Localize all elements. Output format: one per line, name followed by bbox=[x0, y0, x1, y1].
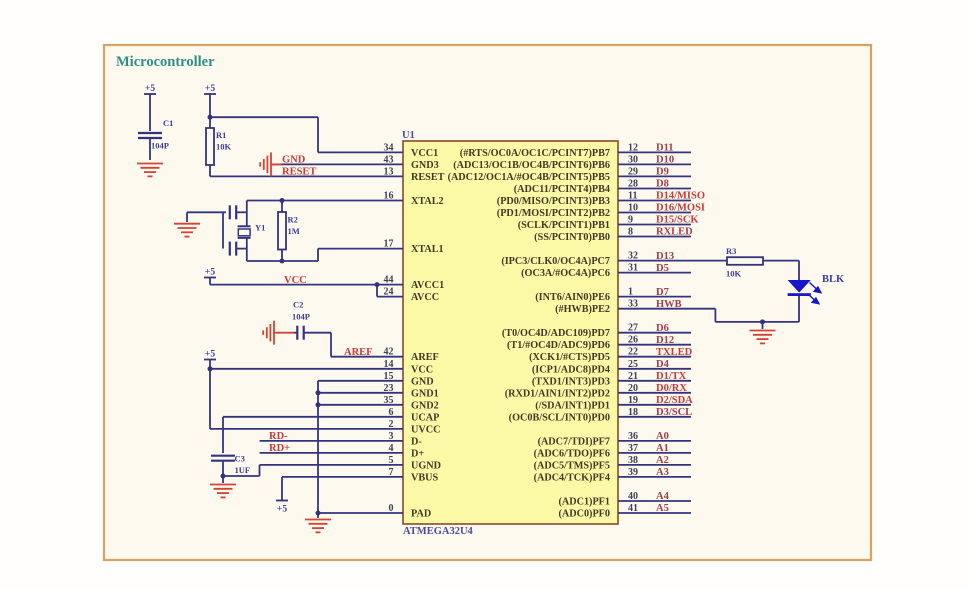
svg-text:RXLED: RXLED bbox=[656, 227, 693, 238]
capacitor C1 bbox=[138, 133, 162, 138]
svg-text:9: 9 bbox=[628, 215, 633, 226]
svg-text:1: 1 bbox=[628, 287, 633, 298]
wire pin 34 VCC1 bbox=[318, 151, 403, 153]
wire pin 11 net D14/MISO bbox=[618, 200, 691, 202]
svg-text:C1: C1 bbox=[163, 118, 173, 128]
svg-text:A1: A1 bbox=[656, 443, 669, 454]
svg-text:44: 44 bbox=[384, 275, 394, 286]
wire R1 junction to corner bbox=[210, 116, 318, 118]
ground stub LED bbox=[762, 322, 764, 329]
wire pin 26 net D12 bbox=[618, 344, 691, 346]
svg-text:A4: A4 bbox=[656, 491, 670, 502]
node LED ground junction bbox=[760, 319, 765, 324]
svg-text:(ADC6/TDO)PF6: (ADC6/TDO)PF6 bbox=[534, 448, 610, 459]
wire cathode to HWB bbox=[715, 321, 799, 323]
svg-text:8: 8 bbox=[628, 227, 633, 238]
resistor R1 bbox=[206, 128, 214, 165]
wire pin 43 GND3 bbox=[272, 163, 403, 165]
svg-text:6: 6 bbox=[389, 407, 394, 418]
wire flag to C2 bbox=[294, 332, 297, 334]
wire pin 13 RESET bbox=[210, 175, 403, 177]
wire UCAP down to C3 bbox=[222, 417, 224, 453]
ground stub PAD bbox=[317, 513, 319, 518]
op IC U1 ATMEGA32U4 body bbox=[403, 141, 618, 524]
ground left of crystal bbox=[174, 224, 200, 237]
svg-text:D9: D9 bbox=[656, 167, 669, 178]
wire pin 29 net D9 bbox=[618, 175, 691, 177]
svg-text:UCAP: UCAP bbox=[411, 412, 439, 423]
wire pin 15 GND bbox=[318, 380, 403, 382]
svg-text:15: 15 bbox=[384, 371, 394, 382]
svg-text:(ADC13/OC1B/OC4B/PCINT6)PB6: (ADC13/OC1B/OC4B/PCINT6)PB6 bbox=[453, 160, 610, 171]
svg-text:(PD1/MOSI/PCINT2)PB2: (PD1/MOSI/PCINT2)PB2 bbox=[497, 208, 610, 219]
svg-text:BLK: BLK bbox=[822, 274, 845, 285]
node GND2 bbox=[316, 402, 321, 407]
svg-text:D15/SCK: D15/SCK bbox=[656, 215, 699, 226]
svg-text:16: 16 bbox=[384, 191, 394, 202]
wire ground node right bbox=[223, 475, 260, 477]
wire pin 27 net D6 bbox=[618, 332, 691, 334]
svg-text:10K: 10K bbox=[726, 269, 742, 279]
wire pin 14 VCC bbox=[210, 368, 403, 370]
svg-text:D2/SDA: D2/SDA bbox=[656, 395, 693, 406]
wire up to UGND bbox=[259, 465, 261, 476]
ground below C3 bbox=[210, 485, 236, 498]
svg-text:20: 20 bbox=[628, 383, 638, 394]
svg-text:31: 31 bbox=[628, 263, 638, 274]
svg-text:D3/SCL: D3/SCL bbox=[656, 407, 692, 418]
svg-text:28: 28 bbox=[628, 179, 638, 190]
wire pin 4 D+ bbox=[260, 452, 403, 454]
svg-text:+5: +5 bbox=[205, 268, 215, 278]
wire pin 3 D- bbox=[260, 440, 403, 442]
wire pin 7 VBUS bbox=[282, 476, 403, 478]
svg-text:43: 43 bbox=[384, 154, 394, 165]
LED D1 (BLK) bbox=[788, 280, 811, 296]
wire pin 1 net D7 bbox=[618, 296, 691, 298]
wire pin 17 XTAL1 bbox=[318, 248, 403, 250]
wire pin 35 GND2 bbox=[318, 404, 403, 406]
svg-text:34: 34 bbox=[384, 142, 394, 153]
LED arrows bbox=[808, 283, 821, 304]
wire +5 to VCC pin 14 bbox=[209, 360, 211, 369]
svg-text:RD-: RD- bbox=[269, 431, 288, 442]
svg-text:(/SDA/INT1)PD1: (/SDA/INT1)PD1 bbox=[535, 400, 610, 411]
wire pin 28 net D8 bbox=[618, 188, 691, 190]
wire pin 41 net A5 bbox=[618, 512, 691, 514]
svg-text:14: 14 bbox=[384, 359, 394, 370]
wire cap to crystal node bbox=[236, 211, 247, 213]
svg-text:UVCC: UVCC bbox=[411, 424, 440, 435]
svg-text:D16/MOSI: D16/MOSI bbox=[656, 203, 705, 214]
svg-text:UGND: UGND bbox=[411, 460, 441, 471]
svg-text:A0: A0 bbox=[656, 431, 669, 442]
svg-text:D-: D- bbox=[411, 436, 422, 447]
ground below LED bbox=[750, 331, 776, 344]
wire AVCC1 to AVCC bbox=[376, 285, 378, 297]
svg-text:(#HWB)PE2: (#HWB)PE2 bbox=[555, 304, 610, 315]
wire pin 2 UVCC bbox=[210, 428, 403, 430]
wire pin 42 AREF bbox=[331, 356, 403, 358]
svg-text:D7: D7 bbox=[656, 287, 669, 298]
svg-text:1M: 1M bbox=[288, 226, 300, 236]
wire pin 25 net D4 bbox=[618, 368, 691, 370]
svg-text:D8: D8 bbox=[656, 179, 669, 190]
svg-text:7: 7 bbox=[389, 467, 394, 478]
svg-text:17: 17 bbox=[384, 239, 394, 250]
wire pin 23 GND1 bbox=[318, 392, 403, 394]
svg-text:(ADC0)PF0: (ADC0)PF0 bbox=[559, 509, 611, 520]
svg-text:HWB: HWB bbox=[656, 299, 682, 310]
svg-text:12: 12 bbox=[628, 142, 638, 153]
wire pin 24 AVCC bbox=[377, 296, 403, 298]
wire pin 6 UCAP bbox=[223, 416, 403, 418]
wire HWB down bbox=[714, 309, 716, 322]
wire crystal bottom bus bbox=[247, 260, 318, 262]
svg-text:21: 21 bbox=[628, 371, 638, 382]
wire pin 12 net D11 bbox=[618, 151, 691, 153]
svg-text:29: 29 bbox=[628, 166, 638, 177]
svg-text:D1/TX: D1/TX bbox=[656, 371, 687, 382]
svg-text:33: 33 bbox=[628, 299, 638, 310]
+5 power symbol above R1 bbox=[204, 93, 216, 95]
ground stub C3 bbox=[222, 476, 224, 483]
svg-text:30: 30 bbox=[628, 154, 638, 165]
svg-text:D5: D5 bbox=[656, 263, 669, 274]
ground flag (rotated) at C2 bbox=[263, 321, 294, 345]
resistor R2 bbox=[278, 212, 286, 250]
svg-text:26: 26 bbox=[628, 335, 638, 346]
capacitor C3 bbox=[211, 456, 235, 461]
wire pin 30 net D10 bbox=[618, 163, 691, 165]
node C3/ground junction bbox=[221, 474, 226, 479]
svg-text:41: 41 bbox=[628, 503, 638, 514]
svg-text:35: 35 bbox=[384, 395, 394, 406]
wire pin 31 net D5 bbox=[618, 272, 691, 274]
+5 power symbol below VBUS (inverted) bbox=[276, 500, 288, 502]
svg-text:(INT6/AIN0)PE6: (INT6/AIN0)PE6 bbox=[535, 292, 610, 303]
svg-text:23: 23 bbox=[384, 383, 394, 394]
wire pin 32 net D13 bbox=[618, 260, 727, 262]
wire pin 8 net RXLED bbox=[618, 236, 691, 238]
svg-text:GND: GND bbox=[282, 155, 306, 166]
svg-text:AREF: AREF bbox=[411, 352, 439, 363]
ground flag (rotated) on GND3 net bbox=[260, 152, 281, 176]
wire +5 to AVCC1 net bbox=[209, 278, 211, 285]
wire XTAL2 node down to crystal bbox=[246, 201, 248, 226]
svg-text:+5: +5 bbox=[205, 84, 215, 94]
svg-text:(OC0B/SCL/INT0)PD0: (OC0B/SCL/INT0)PD0 bbox=[509, 412, 610, 423]
svg-text:0: 0 bbox=[389, 503, 394, 514]
svg-text:D0/RX: D0/RX bbox=[656, 383, 687, 394]
svg-text:AVCC1: AVCC1 bbox=[411, 280, 444, 291]
svg-text:VCC: VCC bbox=[284, 275, 307, 286]
wire pin 0 PAD bbox=[318, 512, 403, 514]
svg-text:37: 37 bbox=[628, 443, 638, 454]
wire up to XTAL1 bbox=[317, 249, 319, 261]
svg-text:104P: 104P bbox=[292, 312, 310, 322]
svg-text:10K: 10K bbox=[216, 142, 232, 152]
svg-text:22: 22 bbox=[628, 347, 638, 358]
svg-text:(SS/PCINT0)PB0: (SS/PCINT0)PB0 bbox=[534, 232, 610, 243]
wire pin 22 net TXLED bbox=[618, 356, 691, 358]
svg-text:C3: C3 bbox=[235, 454, 245, 464]
svg-text:11: 11 bbox=[628, 191, 637, 202]
svg-text:C2: C2 bbox=[293, 300, 303, 310]
node AVCC branch bbox=[375, 282, 380, 287]
node VCC rail bbox=[208, 366, 213, 371]
svg-text:(PD0/MISO/PCINT3)PB3: (PD0/MISO/PCINT3)PB3 bbox=[497, 196, 610, 207]
wire LED cathode down bbox=[798, 296, 800, 322]
svg-text:1UF: 1UF bbox=[235, 465, 251, 475]
svg-text:(OC3A/#OC4A)PC6: (OC3A/#OC4A)PC6 bbox=[521, 268, 610, 279]
svg-text:(RXD1/AIN1/INT2)PD2: (RXD1/AIN1/INT2)PD2 bbox=[505, 388, 610, 399]
node XTAL2/R2 top bbox=[280, 198, 285, 203]
wire +5 to C1 bbox=[149, 94, 151, 131]
wire corner down to VCC1 bbox=[317, 117, 319, 152]
svg-text:(XCK1/#CTS)PD5: (XCK1/#CTS)PD5 bbox=[529, 352, 610, 363]
wire pin 44 AVCC1 bbox=[210, 284, 403, 286]
wire R1 bottom to RESET net bbox=[209, 165, 211, 176]
svg-text:D6: D6 bbox=[656, 323, 669, 334]
svg-text:D12: D12 bbox=[656, 335, 674, 346]
svg-text:D11: D11 bbox=[656, 143, 674, 154]
wire rail down to UVCC bbox=[209, 369, 211, 429]
svg-text:RD+: RD+ bbox=[269, 443, 290, 454]
svg-text:GND3: GND3 bbox=[411, 160, 439, 171]
wire ground to cap C4 bbox=[187, 211, 226, 213]
svg-text:(ADC7/TDI)PF7: (ADC7/TDI)PF7 bbox=[538, 436, 610, 447]
capacitor (XTAL1 load) bbox=[230, 242, 236, 256]
svg-text:18: 18 bbox=[628, 407, 638, 418]
svg-text:(ADC11/PCINT4)PB4: (ADC11/PCINT4)PB4 bbox=[514, 184, 610, 195]
+5 power symbol above C1 bbox=[144, 93, 156, 95]
svg-text:VCC1: VCC1 bbox=[411, 148, 438, 159]
svg-text:32: 32 bbox=[628, 251, 638, 262]
svg-text:D13: D13 bbox=[656, 251, 674, 262]
svg-text:(#RTS/OC0A/OC1C/PCINT7)PB7: (#RTS/OC0A/OC1C/PCINT7)PB7 bbox=[460, 148, 610, 159]
wire C3 to ground node bbox=[222, 461, 224, 476]
svg-text:ATMEGA32U4: ATMEGA32U4 bbox=[403, 526, 474, 537]
svg-text:Y1: Y1 bbox=[255, 223, 265, 233]
svg-text:A5: A5 bbox=[656, 503, 669, 514]
svg-text:36: 36 bbox=[628, 431, 638, 442]
wire pin 18 net D3/SCL bbox=[618, 416, 691, 418]
svg-text:RESET: RESET bbox=[411, 172, 445, 183]
svg-text:(TXD1/INT3)PD3: (TXD1/INT3)PD3 bbox=[532, 376, 610, 387]
svg-text:4: 4 bbox=[389, 443, 394, 454]
ground below C1 bbox=[137, 164, 163, 177]
node R1 top junction bbox=[208, 115, 213, 120]
wire pin 20 net D0/RX bbox=[618, 392, 691, 394]
svg-text:24: 24 bbox=[384, 287, 394, 298]
+5 power symbol near AREF bbox=[204, 359, 216, 361]
node GND1 bbox=[316, 390, 321, 395]
svg-text:XTAL2: XTAL2 bbox=[411, 196, 444, 207]
svg-text:(T0/OC4D/ADC109)PD7: (T0/OC4D/ADC109)PD7 bbox=[502, 328, 610, 339]
wire C1 to ground bbox=[149, 138, 151, 160]
wire cap to crystal bottom bbox=[236, 248, 247, 250]
svg-text:Microcontroller: Microcontroller bbox=[116, 54, 215, 70]
capacitor (XTAL2 load) bbox=[230, 205, 236, 219]
wire corner down to AREF bbox=[330, 333, 332, 357]
svg-text:XTAL1: XTAL1 bbox=[411, 244, 444, 255]
svg-text:(SCLK/PCINT1)PB1: (SCLK/PCINT1)PB1 bbox=[518, 220, 610, 231]
svg-text:(ICP1/ADC8)PD4: (ICP1/ADC8)PD4 bbox=[532, 364, 610, 375]
svg-text:GND1: GND1 bbox=[411, 388, 439, 399]
wire C2 to corner bbox=[304, 332, 331, 334]
svg-text:(T1/#OC4D/ADC9)PD6: (T1/#OC4D/ADC9)PD6 bbox=[507, 340, 610, 351]
svg-text:(ADC4/TCK)PF4: (ADC4/TCK)PF4 bbox=[534, 472, 610, 483]
svg-text:(ADC12/OC1A/#OC4B/PCINT5)PB5: (ADC12/OC1A/#OC4B/PCINT5)PB5 bbox=[448, 172, 610, 183]
wire VBUS down to +5 bbox=[281, 477, 283, 500]
resistor R3 bbox=[727, 257, 763, 265]
svg-text:25: 25 bbox=[628, 359, 638, 370]
wire R2 bottom bbox=[281, 250, 283, 262]
node PAD/ground bbox=[316, 511, 321, 516]
svg-text:D14/MISO: D14/MISO bbox=[656, 191, 705, 202]
svg-text:13: 13 bbox=[384, 166, 394, 177]
svg-text:TXLED: TXLED bbox=[656, 347, 693, 358]
svg-text:(IPC3/CLK0/OC4A)PC7: (IPC3/CLK0/OC4A)PC7 bbox=[501, 256, 610, 267]
wire pin 33 net HWB bbox=[618, 308, 715, 310]
wire down to LED anode bbox=[798, 261, 800, 280]
wire R3 to LED corner bbox=[763, 260, 799, 262]
wire pin 5 UGND bbox=[260, 464, 404, 466]
svg-text:3: 3 bbox=[389, 431, 394, 442]
wire pin 10 net D16/MOSI bbox=[618, 212, 691, 214]
svg-text:R3: R3 bbox=[726, 246, 736, 256]
wire +5 to R1 top bbox=[209, 94, 211, 128]
schematic sheet border bbox=[104, 45, 871, 560]
svg-text:A2: A2 bbox=[656, 455, 669, 466]
svg-text:42: 42 bbox=[384, 347, 394, 358]
+5 power symbol VCC bbox=[204, 277, 216, 279]
svg-text:5: 5 bbox=[389, 455, 394, 466]
svg-text:104P: 104P bbox=[151, 141, 169, 151]
svg-text:10: 10 bbox=[628, 203, 638, 214]
node XTAL1/R2 bottom bbox=[280, 259, 285, 264]
svg-text:VBUS: VBUS bbox=[411, 472, 439, 483]
capacitor C2 bbox=[297, 326, 303, 340]
ground stub bbox=[186, 212, 188, 222]
wire R2 top bbox=[281, 201, 283, 213]
svg-text:R1: R1 bbox=[216, 130, 226, 140]
svg-text:38: 38 bbox=[628, 455, 638, 466]
wire pin 37 net A1 bbox=[618, 452, 691, 454]
svg-text:+5: +5 bbox=[205, 350, 215, 360]
svg-text:27: 27 bbox=[628, 323, 638, 334]
svg-text:2: 2 bbox=[389, 419, 394, 430]
wire ground bus vertical bbox=[317, 381, 319, 513]
wire pin 38 net A2 bbox=[618, 464, 691, 466]
wire pin 36 net A0 bbox=[618, 440, 691, 442]
svg-text:+5: +5 bbox=[277, 505, 287, 515]
wire pin 16 XTAL2 bbox=[247, 200, 403, 202]
svg-text:D10: D10 bbox=[656, 155, 674, 166]
svg-text:D4: D4 bbox=[656, 359, 670, 370]
svg-text:(ADC1)PF1: (ADC1)PF1 bbox=[559, 497, 611, 508]
svg-text:AVCC: AVCC bbox=[411, 292, 439, 303]
wire pin 40 net A4 bbox=[618, 500, 691, 502]
svg-text:GND: GND bbox=[411, 376, 434, 387]
wire crystal bottom down bbox=[246, 238, 248, 261]
svg-text:39: 39 bbox=[628, 467, 638, 478]
svg-text:PAD: PAD bbox=[411, 509, 431, 520]
svg-text:A3: A3 bbox=[656, 467, 669, 478]
wire pin 9 net D15/SCK bbox=[618, 224, 691, 226]
wire left cap bus bbox=[222, 212, 224, 248]
wire pin 39 net A3 bbox=[618, 476, 691, 478]
svg-text:+5: +5 bbox=[145, 84, 155, 94]
svg-text:AREF: AREF bbox=[344, 347, 373, 358]
svg-text:40: 40 bbox=[628, 491, 638, 502]
svg-text:D+: D+ bbox=[411, 448, 424, 459]
wire pin 19 net D2/SDA bbox=[618, 404, 691, 406]
ground below PAD bbox=[305, 520, 331, 533]
svg-text:RESET: RESET bbox=[282, 167, 316, 178]
svg-text:GND2: GND2 bbox=[411, 400, 439, 411]
svg-text:R2: R2 bbox=[288, 215, 298, 225]
crystal Y1 bbox=[238, 226, 251, 238]
svg-text:19: 19 bbox=[628, 395, 638, 406]
wire pin 21 net D1/TX bbox=[618, 380, 691, 382]
svg-text:VCC: VCC bbox=[411, 364, 433, 375]
svg-text:(ADC5/TMS)PF5: (ADC5/TMS)PF5 bbox=[534, 460, 610, 471]
svg-text:U1: U1 bbox=[402, 130, 415, 141]
